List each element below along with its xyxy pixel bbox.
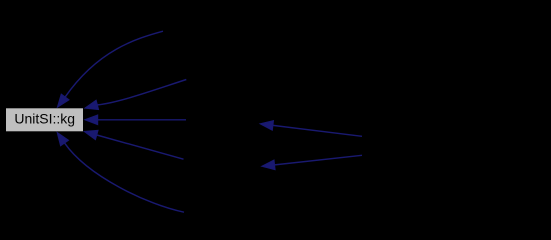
svg-text:UnitSI::kg: UnitSI::kg — [14, 110, 75, 126]
